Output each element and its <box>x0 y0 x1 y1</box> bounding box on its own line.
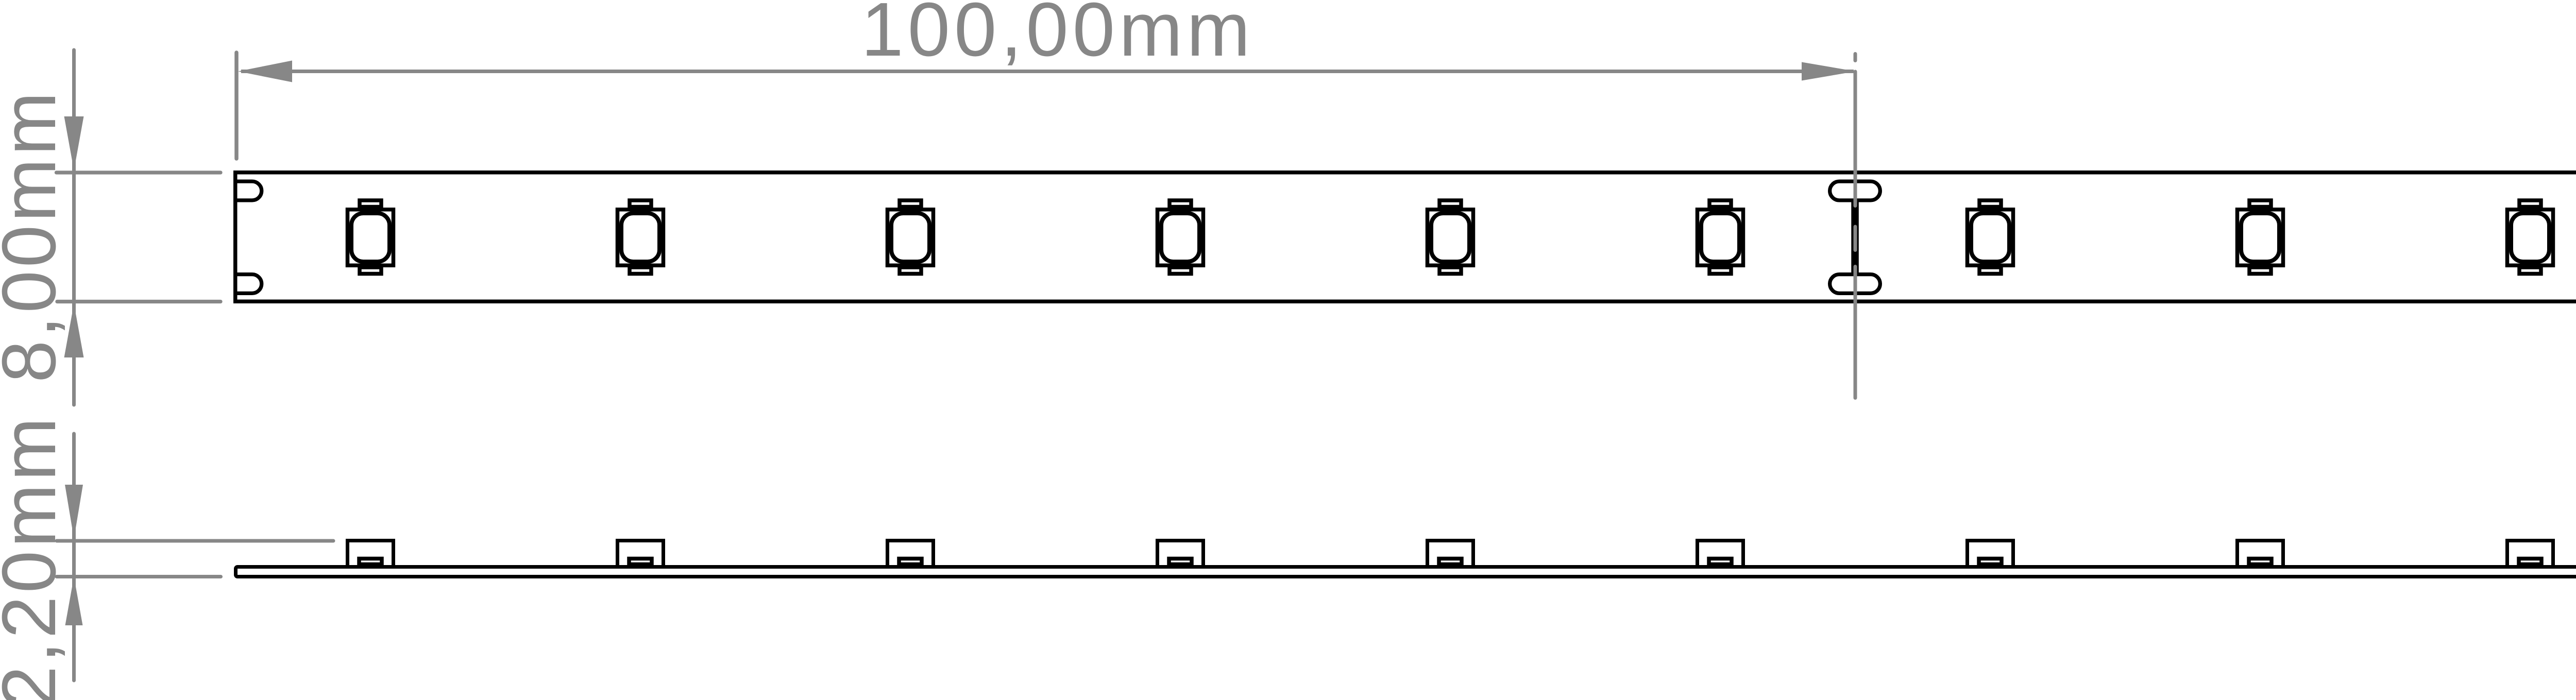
extension line profile bottom <box>57 575 221 578</box>
arrowhead up 2,20mm <box>65 577 83 626</box>
LED D9 (top view) <box>2507 200 2553 274</box>
LED D4 (top view) <box>1158 200 1204 274</box>
arrowhead down 2,20mm <box>65 485 83 539</box>
solder pad notch top-left <box>235 181 262 200</box>
LED D2 (top view) <box>618 200 664 274</box>
PCB strip outline (top view) <box>235 173 2576 302</box>
LED D3 (side view) <box>888 541 934 567</box>
arrowhead left of 100,00mm <box>238 61 292 82</box>
arrowhead down 8,00mm <box>64 116 84 170</box>
arrowhead up 8,00mm <box>64 304 84 358</box>
svg-text:100,00mm: 100,00mm <box>861 0 1254 72</box>
solder pad notch bottom-left <box>235 275 262 294</box>
LED D8 (side view) <box>2238 541 2283 567</box>
extension line left (strip start) <box>234 53 239 159</box>
extension line profile top <box>57 539 333 543</box>
LED D4 (side view) <box>1158 541 1204 567</box>
dimension line 2,20mm <box>72 434 76 680</box>
LED D7 (side view) <box>1968 541 2013 567</box>
LED D6 (side view) <box>1698 541 1743 567</box>
LED D5 (top view) <box>1428 200 1473 274</box>
LED D3 (top view) <box>888 200 934 274</box>
extension line strip top <box>57 170 221 174</box>
LED D2 (side view) <box>618 541 664 567</box>
LED D9 (side view) <box>2507 541 2553 567</box>
dimension line 100,00mm <box>241 70 1854 73</box>
LED D8 (top view) <box>2238 200 2283 274</box>
cut line bar <box>1851 202 1859 273</box>
centerline at cut point <box>1854 54 1857 398</box>
svg-text:8,00mm: 8,00mm <box>0 89 72 383</box>
LED D6 (top view) <box>1698 200 1743 274</box>
LED D5 (side view) <box>1428 541 1473 567</box>
cut-point pad bottom <box>1830 275 1880 294</box>
svg-text:2,20mm: 2,20mm <box>0 414 72 700</box>
dimension line 8,00mm <box>72 50 76 405</box>
LED D7 (top view) <box>1968 200 2013 274</box>
PCB strip (side view) <box>236 567 2576 577</box>
cut-point pad top <box>1830 181 1880 200</box>
arrowhead right of 100,00mm <box>1802 62 1856 81</box>
LED D1 (top view) <box>348 200 394 274</box>
LED D1 (side view) <box>348 541 394 567</box>
extension line strip bottom <box>57 300 221 303</box>
